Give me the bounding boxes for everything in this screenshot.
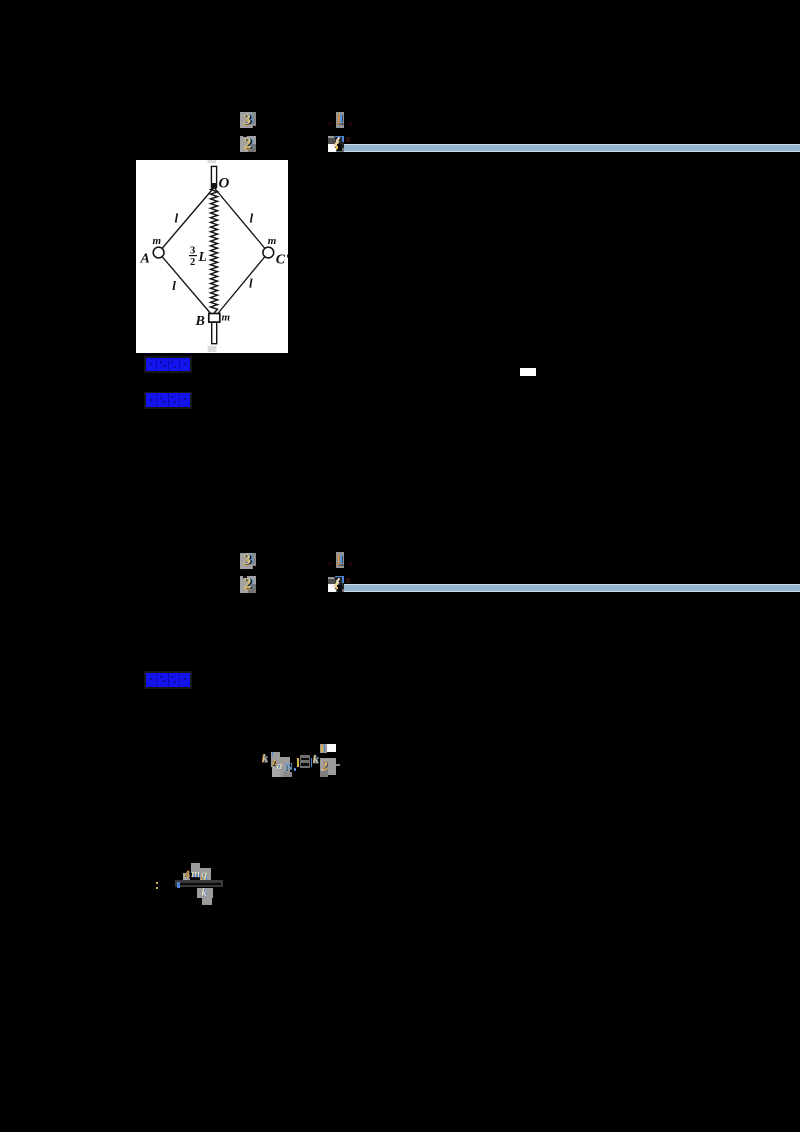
svg-text:l: l: [175, 210, 179, 225]
svg-text:l: l: [250, 210, 254, 225]
svg-text:3: 3: [190, 245, 195, 256]
svg-text:B: B: [195, 313, 205, 328]
svg-text:l: l: [249, 275, 253, 290]
svg-text:m: m: [153, 235, 162, 247]
svg-text:2: 2: [190, 256, 195, 267]
svg-text:m: m: [222, 311, 231, 323]
svg-text:C': C': [276, 252, 288, 267]
svg-text:l: l: [173, 278, 177, 293]
svg-text:O: O: [219, 175, 230, 191]
svg-text:L: L: [198, 249, 207, 264]
svg-text:m: m: [268, 235, 277, 247]
svg-text:A: A: [140, 251, 150, 266]
